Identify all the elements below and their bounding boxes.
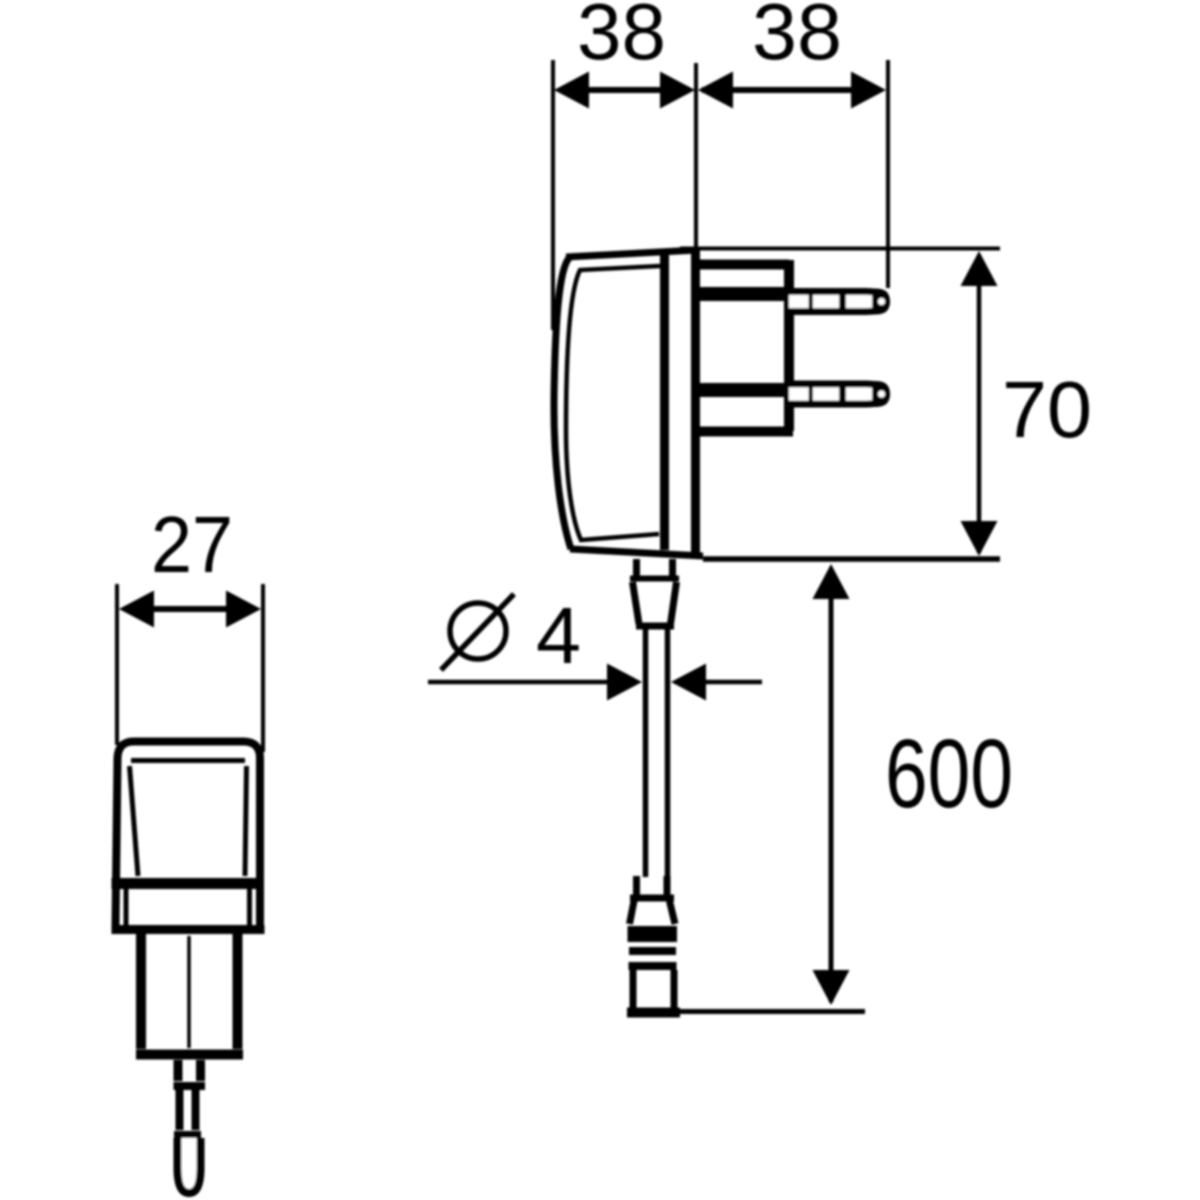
extension line middle of 38 — [694, 63, 698, 250]
extension line left of 38 — [551, 60, 555, 330]
dimension line 38 left segment — [560, 87, 690, 93]
adapter body side view: inner contour line — [566, 266, 660, 540]
extension line bottom of 600 — [678, 1009, 865, 1014]
barrel connector ring 2 — [629, 962, 677, 970]
dimension line 38 right segment — [702, 87, 880, 93]
barrel connector ring 1 — [629, 947, 676, 955]
cable boot collar — [637, 559, 673, 576]
cable — [646, 629, 668, 877]
extension line bottom of 70 — [703, 556, 1000, 562]
adapter body side view: front edge — [691, 249, 700, 557]
plug nose front view: center line — [187, 936, 191, 1048]
plug nose front view — [141, 934, 238, 1049]
svg-text:27: 27 — [151, 500, 233, 589]
adapter body side view: curved back edge — [554, 258, 571, 549]
extension line right of 27 — [261, 584, 265, 752]
svg-text:4: 4 — [536, 591, 581, 680]
lower pin — [789, 384, 887, 404]
svg-text:70: 70 — [1002, 365, 1092, 454]
extension line left of 27 — [115, 584, 119, 745]
dimension line O4 left — [428, 680, 610, 685]
plug nose side view: upper band — [696, 287, 784, 301]
adapter body front view: inner lines below band — [126, 889, 250, 925]
cable boot taper — [633, 582, 677, 624]
adapter body front view: parting band — [112, 878, 265, 889]
barrel connector collar — [637, 876, 668, 895]
dimension line 600 — [829, 568, 834, 1002]
dimension line O4 right — [705, 680, 762, 685]
barrel connector band — [628, 926, 678, 942]
adapter body side view: parting line — [660, 252, 669, 550]
pin front view: shaft — [180, 1090, 196, 1130]
svg-text:600: 600 — [885, 719, 1013, 828]
diameter symbol of dimension O4 — [450, 603, 506, 659]
pin front view: tip — [178, 1138, 201, 1193]
dimension line 70 — [977, 255, 982, 553]
adapter body front view: outline — [116, 742, 261, 929]
adapter body front view: inner contour — [130, 761, 247, 877]
svg-text:38: 38 — [752, 0, 842, 76]
dimension line 27 — [124, 606, 256, 612]
adapter body side view: bottom edge — [570, 549, 703, 556]
barrel connector body — [633, 970, 674, 1008]
pin front view: collar — [178, 1060, 201, 1081]
upper pin — [789, 292, 887, 312]
extension line top of 70 — [680, 247, 1000, 251]
plug nose side view: lower band — [696, 383, 784, 397]
extension line right of 38 — [886, 60, 890, 288]
svg-text:38: 38 — [577, 0, 666, 76]
adapter body side view: top edge — [566, 250, 697, 257]
barrel connector taper — [630, 901, 676, 924]
plug nose side view: outline — [696, 260, 793, 432]
adapter body front view: bottom edge — [112, 925, 265, 934]
